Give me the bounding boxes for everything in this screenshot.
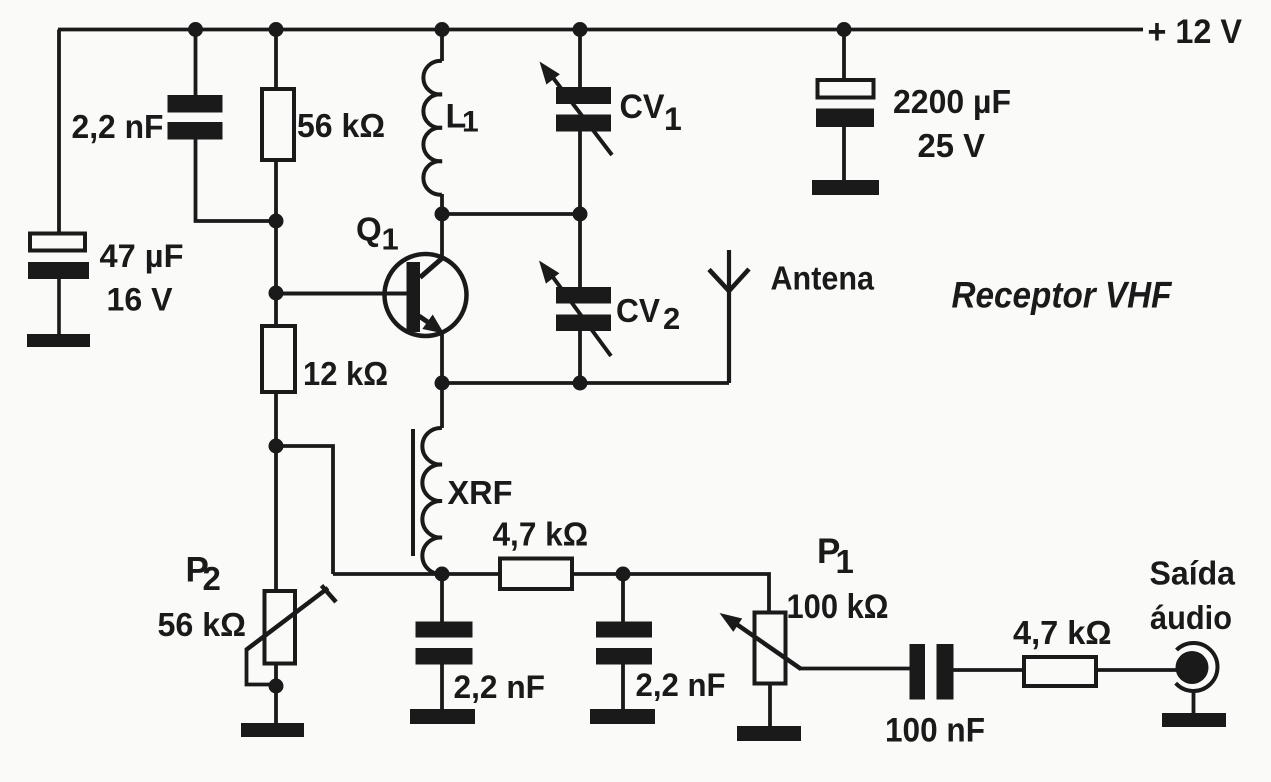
wire jack stem (1192, 690, 1196, 714)
wire L1 bottom / collector (440, 194, 444, 257)
svg-text:12 kΩ: 12 kΩ (303, 355, 388, 392)
capacitor 100nF (910, 644, 954, 700)
svg-text:4,7 kΩ: 4,7 kΩ (493, 516, 589, 553)
resistor 4,7k second (1024, 657, 1096, 686)
wire 100nF to 4,7k resistor (953, 668, 1025, 672)
wire left vertical to 47uF (57, 30, 61, 235)
svg-text:25 V: 25 V (918, 127, 986, 164)
ground 2,2nF bottom-right (590, 709, 655, 724)
antenna (709, 269, 749, 291)
node F 56k bottom (269, 214, 284, 229)
node D rail-CV1 (573, 22, 588, 37)
node J collector-L1 (435, 207, 450, 222)
wire node to 2,2nF bottom-right (621, 574, 625, 622)
resistor 4,7k first (500, 559, 572, 590)
wire P2 bottom to node and ground (274, 663, 278, 723)
wire CV2 bottom to node (578, 330, 582, 383)
wire +12V top rail (58, 28, 1143, 32)
variable capacitor CV1 (540, 62, 613, 156)
node N XRF bottom (435, 567, 450, 582)
svg-text:2,2 nF: 2,2 nF (454, 669, 546, 705)
wire 2200uF to ground (842, 126, 846, 181)
ground 2,2nF bottom-left (410, 709, 475, 724)
svg-text:56 kΩ: 56 kΩ (297, 107, 385, 144)
wire P2 wiper return (247, 648, 277, 685)
svg-text:1: 1 (664, 101, 682, 137)
wire 2,2nF bottom-right to ground (621, 664, 625, 710)
capacitor 47uF electrolytic (28, 234, 89, 335)
inductor XRF (422, 428, 442, 574)
svg-text:2,2 nF: 2,2 nF (636, 667, 726, 703)
node A rail-2,2nF (188, 22, 203, 37)
capacitor 2,2nF bottom-right (596, 622, 652, 665)
potentiometer P2 (246, 586, 336, 664)
node I P2 bottom (269, 679, 284, 694)
svg-text:2: 2 (663, 301, 680, 336)
svg-text:Saída: Saída (1150, 555, 1236, 592)
ground 2200uF (812, 180, 879, 195)
wire rail to CV1 top (578, 30, 582, 89)
svg-text:Q: Q (356, 211, 382, 248)
node L emitter (435, 376, 450, 391)
node E rail-2200uF (837, 22, 852, 37)
ground P2 (241, 723, 304, 737)
wire node to XRF top (440, 383, 444, 428)
ground 47uF (27, 334, 90, 347)
resistor 12k (262, 326, 295, 392)
inductor L1 (423, 61, 442, 195)
wire node to 2,2nF bottom-left (440, 574, 444, 622)
wire node L1 to CV1 bottom (442, 212, 580, 216)
svg-text:+ 12 V: + 12 V (1148, 13, 1243, 51)
XRF core line (411, 429, 415, 556)
audio jack Saida audio (1176, 643, 1218, 691)
node M CV2 bottom (573, 376, 588, 391)
wire 2,2nF bottom-left to ground (440, 664, 444, 710)
wire emitter rail left segment (333, 572, 500, 576)
svg-text:2,2 nF: 2,2 nF (72, 109, 164, 146)
svg-text:16 V: 16 V (107, 282, 174, 318)
svg-text:1: 1 (836, 543, 854, 580)
wire CV1 bottom to CV2 top (578, 131, 582, 288)
wire 2,2nF bottom to node (196, 139, 277, 221)
capacitor 2,2nF bottom-left (416, 622, 473, 665)
svg-text:CV: CV (616, 293, 661, 330)
wire 12k bottom to P2 top (274, 392, 278, 591)
potentiometer P1 (720, 613, 802, 684)
node B rail-56k (269, 22, 284, 37)
svg-text:Receptor VHF: Receptor VHF (952, 275, 1173, 316)
capacitor 2200uF electrolytic (816, 80, 874, 127)
wire antenna mast (727, 250, 731, 383)
svg-text:2: 2 (203, 560, 221, 597)
svg-text:100 nF: 100 nF (885, 712, 985, 750)
node K CV1 bottom (573, 207, 588, 222)
wire P1 wiper to 100nF (800, 667, 910, 671)
wire P1 bottom to ground (768, 683, 772, 727)
wire emitter rail right segment to P1 (572, 574, 769, 613)
svg-text:XRF: XRF (448, 474, 513, 511)
wire base of Q1 (276, 292, 409, 296)
svg-text:1: 1 (382, 222, 399, 257)
wire rail to 56k top (274, 30, 278, 90)
wire drop to 2,2nF top cap (194, 30, 198, 97)
resistor 56k top (262, 89, 294, 160)
svg-text:áudio: áudio (1150, 599, 1232, 636)
wire 56k bottom through base node to 12k top (274, 160, 278, 326)
svg-text:56 kΩ: 56 kΩ (158, 606, 247, 643)
svg-text:4,7 kΩ: 4,7 kΩ (1013, 614, 1112, 651)
variable capacitor CV2 (539, 261, 611, 357)
svg-text:2200 µF: 2200 µF (893, 83, 1011, 120)
svg-text:100 kΩ: 100 kΩ (787, 588, 889, 626)
ground jack (1162, 713, 1226, 727)
wire emitter down to node (440, 331, 444, 383)
capacitor 2,2nF top-left (168, 95, 223, 140)
svg-text:Antena: Antena (771, 260, 875, 297)
svg-text:47 µF: 47 µF (100, 238, 184, 274)
transistor Q1 (385, 254, 467, 336)
wire rail to 2200uF (842, 30, 846, 82)
ground P1 (737, 726, 801, 741)
node H bias divider (269, 439, 284, 454)
node G base (269, 286, 284, 301)
wire emitter node to antenna (442, 381, 729, 385)
svg-text:CV: CV (620, 88, 665, 126)
node C rail-L1 (435, 22, 450, 37)
node O after 4,7k (616, 567, 631, 582)
wire bias node to emitter rail (276, 446, 333, 574)
svg-text:1: 1 (462, 106, 479, 139)
wire 4,7k resistor to jack (1095, 668, 1177, 672)
wire rail to L1 top (440, 30, 444, 62)
